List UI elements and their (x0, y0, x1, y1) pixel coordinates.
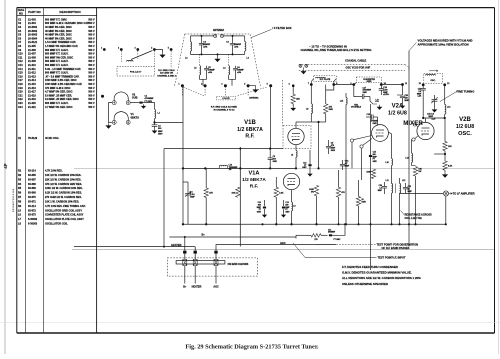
ground 8.2K (443, 172, 448, 177)
label C1 4700MMF FT GMV (145, 96, 155, 103)
svg-text:20-8064: 20-8064 (28, 37, 38, 40)
contact 12 osc (419, 83, 451, 86)
svg-text:500 V: 500 V (88, 64, 95, 67)
resistor 100K mixer grid (366, 169, 375, 179)
capacitor C6 (233, 66, 244, 76)
wires C7/47K to buses (183, 168, 207, 225)
svg-text:C15: C15 (18, 72, 23, 75)
wire plate node (296, 121, 326, 170)
svg-text:±5%: ±5% (237, 72, 241, 74)
label RF grid coils ch 2,3 (157, 70, 176, 78)
svg-text:L8: L8 (306, 109, 308, 111)
svg-text:63-870: 63-870 (28, 196, 36, 199)
ground antenna center (215, 54, 220, 61)
svg-text:G.M.V. DENOTES GUARANTEED MINI: G.M.V. DENOTES GUARANTEED MINIMUM VALUE. (342, 271, 412, 275)
capacitor C22 5.6MMF (417, 89, 426, 119)
wire osc contacts (423, 74, 445, 105)
tube V2A mixer (372, 125, 389, 142)
dashed coil box POS 2,3 (117, 67, 154, 77)
svg-text:500 V: 500 V (88, 34, 95, 37)
HEATER wire (74, 244, 195, 251)
svg-text:21-618: 21-618 (28, 94, 36, 97)
svg-text:63-214: 63-214 (28, 205, 36, 208)
svg-text:±.25: ±.25 (418, 96, 422, 98)
wire contact 11 to mixer (397, 85, 403, 96)
ground heater return (106, 123, 111, 128)
svg-text:500 V: 500 V (88, 75, 95, 78)
label V1 6BK7A (131, 112, 140, 119)
svg-text:21-612: 21-612 (28, 72, 36, 75)
coil L14 (445, 105, 452, 119)
svg-text:NO: NO (19, 11, 23, 15)
svg-text:21-611: 21-611 (28, 68, 36, 71)
svg-text:22K: 22K (296, 99, 300, 101)
svg-text:AS USED ON: AS USED ON (160, 72, 173, 75)
svg-text:63-214: 63-214 (28, 170, 36, 173)
svg-text:Fig. 29 Schematic Diagram S-2: Fig. 29 Schematic Diagram S-21735 Turret… (185, 344, 319, 351)
svg-text:21-8121: 21-8121 (28, 41, 38, 44)
fold crease lines (0, 168, 500, 322)
tube V1 heater pins (112, 112, 130, 125)
svg-text:21-605: 21-605 (28, 45, 36, 48)
svg-text:63-873: 63-873 (28, 214, 36, 217)
resistor 47K osc grid (434, 118, 452, 161)
note resistance across coil (401, 211, 433, 220)
capacitor C1 feed-thru (130, 102, 147, 104)
contact 11 (401, 83, 408, 86)
svg-text:63-869: 63-869 (28, 187, 36, 190)
svg-text:21-603: 21-603 (28, 18, 36, 21)
svg-text:L11: L11 (386, 180, 389, 182)
svg-text:FINE TUNING: FINE TUNING (457, 89, 475, 93)
svg-text:800 MMF F.T. G.M.V.: 800 MMF F.T. G.M.V. (45, 64, 69, 67)
svg-text:40 MMF 5% CER. DISC: 40 MMF 5% CER. DISC (45, 30, 72, 33)
svg-text:21-617: 21-617 (28, 91, 36, 94)
svg-text:63-868: 63-868 (28, 183, 36, 186)
svg-text:C16: C16 (18, 75, 23, 78)
svg-text:6-30363: 6-30363 (28, 223, 38, 226)
wire turret strip bus segments (334, 84, 403, 86)
wire heater riser x164 (163, 149, 165, 248)
svg-text:CONVERTER PLATE COIL ASSY: CONVERTER PLATE COIL ASSY (45, 214, 84, 217)
svg-text:C12: C12 (18, 60, 23, 63)
svg-text:500 V: 500 V (88, 68, 95, 71)
test point leaders (345, 224, 372, 270)
svg-text:IN CHANNEL 4 TO 13: IN CHANNEL 4 TO 13 (214, 109, 236, 112)
svg-text:800 MMF F.T. G.M.V.: 800 MMF F.T. G.M.V. (45, 49, 69, 52)
svg-text:C24: C24 (18, 106, 23, 109)
coil L12 secondary (396, 178, 406, 203)
coil L8 (306, 85, 312, 123)
svg-text:500 V: 500 V (88, 60, 95, 63)
svg-text:4.7 MMF 5% CER. DISC: 4.7 MMF 5% CER. DISC (45, 106, 73, 109)
resistor 47K grid (204, 188, 214, 198)
svg-text:1/2 6BK7A: 1/2 6BK7A (242, 177, 266, 183)
svg-text:22K 1/2 W. CARBON 10% RES.: 22K 1/2 W. CARBON 10% RES. (45, 178, 82, 181)
B+ wire (169, 223, 346, 250)
switch arm diagonal (131, 51, 153, 60)
feed-thru pin B+ (183, 251, 187, 289)
svg-text:V2B: V2B (459, 117, 471, 123)
svg-text:V1A: V1A (249, 171, 260, 177)
svg-text:±2.5%: ±2.5% (383, 94, 389, 96)
svg-text:800 MMF 5% CER. DISC: 800 MMF 5% CER. DISC (45, 56, 73, 59)
svg-text:1/2 6BK7A: 1/2 6BK7A (237, 127, 263, 133)
svg-text:HEATER: HEATER (171, 244, 181, 247)
svg-text:63-872: 63-872 (28, 209, 36, 212)
coil L2 (185, 36, 191, 60)
svg-text:OSC.: OSC. (458, 131, 472, 137)
svg-text:20-8062: 20-8062 (28, 30, 38, 33)
svg-text:4P: 4P (3, 163, 8, 168)
capacitor C17 1500MMF (354, 85, 372, 100)
svg-text:500 V: 500 V (88, 79, 95, 82)
osc injection cap C21 (390, 126, 392, 132)
svg-text:ALL RESISTORS ARE 1/2 W. CARBO: ALL RESISTORS ARE 1/2 W. CARBON RESISTOR… (342, 276, 421, 280)
svg-text:21-607: 21-607 (28, 53, 36, 56)
svg-text:47K 1/2 W. CARBON GMV RES.: 47K 1/2 W. CARBON GMV RES. (45, 183, 82, 186)
wire C1 to L1 (147, 103, 155, 110)
svg-text:21-615: 21-615 (28, 83, 36, 86)
wire grid bus V1B (182, 86, 184, 226)
svg-text:800 MMF F.T. G.M.V.: 800 MMF F.T. G.M.V. (45, 60, 69, 63)
svg-text:21-609: 21-609 (28, 60, 36, 63)
svg-text:1.5-6 MMF TRIMMER CAP.: 1.5-6 MMF TRIMMER CAP. (45, 41, 76, 44)
svg-text:10K 1 W. CARBON 10% RES.: 10K 1 W. CARBON 10% RES. (45, 200, 79, 203)
dashed links contacts to coil assy (182, 87, 266, 101)
svg-text:L13: L13 (405, 158, 408, 160)
svg-text:GRID: GRID (367, 81, 372, 83)
svg-text:±5%: ±5% (203, 46, 207, 48)
svg-text:10K: 10K (448, 146, 452, 148)
svg-text:R.F.: R.F. (245, 134, 255, 140)
fine tuning variable cap (431, 89, 474, 112)
svg-text:21-616: 21-616 (28, 87, 36, 90)
svg-text:C18: C18 (18, 83, 23, 86)
contacts 9 10 (350, 83, 386, 86)
svg-text:C23: C23 (18, 102, 23, 105)
wire contact4 to ground (154, 50, 162, 53)
tube V2A pin 2 (360, 139, 372, 181)
svg-text:R.F.: R.F. (250, 183, 259, 189)
svg-text:21-613: 21-613 (28, 75, 36, 78)
svg-text:C22: C22 (18, 98, 23, 101)
resistor 8.2K (443, 161, 453, 172)
svg-text:VOLTAGES MEASURED WITH VT.V.M: VOLTAGES MEASURED WITH VT.V.M AND (418, 39, 473, 43)
antenna middle bus (190, 53, 244, 55)
svg-text:20-8061: 20-8061 (28, 26, 38, 29)
svg-text:500 V: 500 V (88, 53, 95, 56)
coil L6 (223, 54, 229, 75)
coax connectors (299, 64, 308, 74)
capacitor C23 3.9MMF (422, 114, 446, 121)
svg-text:800 MMF F.T. GMV.: 800 MMF F.T. GMV. (45, 18, 67, 21)
svg-text:800 MMF G.M.V. CERAMIC DISC CA: 800 MMF G.M.V. CERAMIC DISC CAP. (45, 22, 89, 25)
svg-text:4700MMF: 4700MMF (145, 97, 155, 100)
svg-text:POS. 2,3 8 7: POS. 2,3 8 7 (130, 71, 142, 73)
svg-text:1.5 MMF 5% CERAMIC CAP.: 1.5 MMF 5% CERAMIC CAP. (45, 45, 78, 48)
svg-text:40 MMF 5% CER. DISC: 40 MMF 5% CER. DISC (45, 37, 72, 40)
svg-text:C13: C13 (18, 64, 23, 67)
antenna top bus wire (190, 35, 244, 37)
svg-text:FT GMV: FT GMV (334, 239, 342, 241)
svg-text:500 V: 500 V (88, 106, 95, 109)
svg-text:1500 MMF 2.5% CER. DISC: 1500 MMF 2.5% CER. DISC (45, 79, 77, 82)
svg-text:21-619: 21-619 (28, 98, 36, 101)
capacitor C11 600MMF FT (328, 229, 341, 241)
svg-text:800 MMF F.T. G.M.V.: 800 MMF F.T. G.M.V. (45, 102, 69, 105)
wire C2 node to grid line (155, 121, 184, 123)
label V1A 1/2 6BK7A RF (242, 171, 266, 190)
svg-text:GMV: GMV (158, 133, 163, 135)
svg-text:L15: L15 (376, 99, 379, 101)
svg-text:GMV: GMV (363, 92, 368, 94)
svg-text:APPROXIMATE 10%± VIEW ISOLATI: APPROXIMATE 10%± VIEW ISOLATION (418, 42, 469, 46)
svg-text:C17: C17 (18, 79, 23, 82)
capacitor C18 1500MMF (379, 85, 389, 97)
svg-text:TO I.F AMPLIFIER: TO I.F AMPLIFIER (453, 192, 475, 196)
svg-text:CHANNEL 2 AND 3: CHANNEL 2 AND 3 (157, 74, 176, 77)
coil L16 (340, 93, 347, 108)
table rows resistors and coils (18, 170, 86, 226)
capacitor C2 (152, 125, 158, 129)
test point labels (293, 243, 418, 260)
svg-text:GMV: GMV (273, 161, 278, 163)
capacitor C3 40MMF (199, 36, 211, 55)
coil L11 primary (386, 170, 393, 203)
ground contact 4 (248, 86, 258, 93)
svg-text:8.2K 1/2 W. CARBON 10% RES.: 8.2K 1/2 W. CARBON 10% RES. (45, 192, 82, 195)
coil L13 (405, 140, 412, 166)
svg-text:21-608: 21-608 (28, 56, 36, 59)
chassis dashed box (167, 258, 257, 276)
svg-text:COAXIAL CABLE: COAXIAL CABLE (345, 59, 367, 63)
svg-text:63-865: 63-865 (28, 174, 36, 177)
svg-text:AGC: AGC (280, 242, 286, 245)
tube V2B osc (417, 118, 434, 140)
svg-text:8.2K: 8.2K (448, 165, 453, 167)
feed-thru C12 800MMF (282, 200, 291, 217)
svg-text:40 MMF 5% CER. DISC: 40 MMF 5% CER. DISC (45, 34, 72, 37)
svg-text:COIL L12 7.5Ω: COIL L12 7.5Ω (405, 217, 422, 220)
feed-thru C10 800MMF (257, 200, 267, 217)
svg-text:5.6 MMF .25 MMF CER.: 5.6 MMF .25 MMF CER. (45, 94, 72, 97)
svg-text:C19: C19 (18, 87, 23, 90)
svg-text:10K: 10K (232, 193, 236, 195)
wire V2 pin4 and V1 pin4 to ground (109, 103, 113, 123)
note voltages measured (409, 39, 473, 51)
svg-text:2.2K: 2.2K (279, 193, 284, 195)
svg-text:GMV: GMV (373, 123, 378, 125)
label V2 SUB (132, 92, 138, 99)
resistor 10 ohm (356, 180, 366, 225)
svg-text:500 V: 500 V (88, 98, 95, 101)
svg-text:±5%: ±5% (208, 72, 212, 74)
svg-text:500 V: 500 V (88, 87, 95, 90)
svg-text:500 V: 500 V (88, 49, 95, 52)
notes FT/GMV (342, 265, 421, 286)
wire V1B cathode down (164, 145, 297, 247)
feed-thru pin AGC (213, 251, 219, 289)
svg-text:GMV: GMV (329, 109, 334, 111)
svg-text:1%: 1% (229, 169, 232, 171)
svg-text:1/2 6U8: 1/2 6U8 (456, 124, 474, 130)
coil box RF PLATE (314, 76, 337, 82)
svg-text:3.9 MMF .25 MMF CER. DISC: 3.9 MMF .25 MMF CER. DISC (45, 98, 79, 101)
svg-text:ANTENNA: ANTENNA (213, 29, 225, 32)
resistor 8.2K right (453, 131, 455, 224)
capacitor C25 22MMF (403, 183, 413, 194)
svg-text:1W: 1W (418, 171, 421, 173)
tube V1B (283, 126, 311, 149)
coil L10 mixer plate (385, 132, 392, 170)
svg-text:6-30362: 6-30362 (28, 218, 38, 221)
capacitor C13 FT (302, 150, 312, 176)
label C2 500 MMF GMV (158, 126, 163, 136)
label V1B 1/2 6BK7A RF (237, 120, 263, 140)
svg-text:500 V: 500 V (88, 45, 95, 48)
resistor 100K plate (309, 168, 319, 225)
svg-text:21-620: 21-620 (28, 102, 36, 105)
AGC wire (216, 242, 336, 251)
svg-text:500 V: 500 V (88, 91, 95, 94)
capacitor C16 4.7MMF (340, 160, 350, 170)
terminal strip contacts 1-5 (101, 47, 173, 51)
contacts 7 8 (308, 79, 338, 86)
ground C2 (152, 129, 156, 134)
svg-text:C20: C20 (18, 91, 23, 94)
svg-text:4.7K 10% RES.: 4.7K 10% RES. (45, 170, 63, 173)
svg-text:78-8129: 78-8129 (28, 137, 38, 140)
svg-text:500 V: 500 V (88, 37, 95, 40)
svg-text:.47 - 5.6 MMF TRIMMER CAP.: .47 - 5.6 MMF TRIMMER CAP. (45, 75, 80, 78)
svg-text:R.F. GRID COILS AS USED: R.F. GRID COILS AS USED (211, 106, 238, 109)
svg-text:47K: 47K (209, 192, 213, 195)
capacitor C9 600 GMV (268, 156, 278, 164)
svg-text:S 2 3 6 9 8 7 2 5 1 3 1 2 4: S 2 3 6 9 8 7 2 5 1 3 1 2 4 (13, 188, 15, 212)
mixer wires (345, 104, 380, 270)
coil L-sw (126, 60, 133, 61)
svg-text:B+: B+ (202, 233, 206, 236)
antenna dashed enclosure (175, 34, 261, 86)
ground C1 (142, 104, 146, 108)
svg-text:21-604: 21-604 (28, 22, 36, 25)
svg-text:21-614: 21-614 (28, 79, 36, 82)
wire contact 5 to V1B cathode line (270, 84, 290, 149)
svg-text:DESCRIPTION: DESCRIPTION (59, 10, 81, 14)
svg-text:100K 1/2 W. CARBON 10% RES.: 100K 1/2 W. CARBON 10% RES. (45, 187, 83, 190)
svg-text:C19: C19 (367, 114, 370, 116)
svg-text:L16: L16 (340, 101, 343, 103)
svg-text:500 V: 500 V (88, 26, 95, 29)
svg-text:ANTENNA: ANTENNA (249, 97, 259, 100)
svg-text:63-867: 63-867 (28, 178, 36, 181)
svg-text:L12: L12 (402, 180, 405, 182)
tube V2 heater pins (112, 92, 130, 105)
svg-text:OSC YCO3 FOR UHF: OSC YCO3 FOR UHF (346, 67, 371, 70)
svg-text:800 MMF F.T. G.M.V.: 800 MMF F.T. G.M.V. (45, 53, 69, 56)
svg-text:5%: 5% (311, 192, 314, 194)
capacitor C19 470MMF (366, 114, 379, 125)
svg-text:F.T. DENOTES FEED THRU CONDENS: F.T. DENOTES FEED THRU CONDENSER (342, 265, 399, 269)
tab on shield (351, 97, 382, 110)
osc coil dashed box (424, 70, 443, 83)
svg-text:V1B: V1B (244, 120, 256, 126)
coil box CONVERTER GRID (356, 77, 381, 83)
tube V2A pin 6 (350, 136, 371, 169)
resistor 2.2K cathode (274, 177, 284, 226)
wire RF cathode row (182, 167, 240, 169)
label IF FILTER BOX (251, 26, 292, 38)
terminal strip bar (176, 261, 225, 264)
table header (18, 8, 82, 15)
svg-text:CHANNEL NO.,FINE TUNER,AND BUL: CHANNEL NO.,FINE TUNER,AND BULL'S EYE SE… (301, 48, 372, 52)
resistor 270 ohm B+ (296, 234, 328, 241)
svg-text:OSCILLATOR PLATE COIL ASSY: OSCILLATOR PLATE COIL ASSY (45, 218, 84, 221)
svg-text:500 V: 500 V (88, 18, 95, 21)
svg-text:63-866: 63-866 (28, 192, 36, 195)
svg-text:4.7 MMF 5% CER. DISC: 4.7 MMF 5% CER. DISC (45, 91, 73, 94)
svg-text:ON SHIELD: ON SHIELD (351, 107, 362, 109)
capacitor C20 120MMF (400, 95, 410, 108)
svg-text:OSCILLATOR GRID COIL ASSY: OSCILLATOR GRID COIL ASSY (45, 209, 82, 212)
capacitor C8 470MMF (326, 140, 336, 154)
svg-text:40 MMF 5% CER. DISC: 40 MMF 5% CER. DISC (45, 26, 72, 29)
svg-text:500 V: 500 V (88, 72, 95, 75)
svg-text:20-8063: 20-8063 (28, 34, 38, 37)
parts list table grid (17, 8, 97, 333)
svg-text:40 MC OSC.: 40 MC OSC. (45, 137, 59, 140)
table rows capacitors (18, 18, 95, 108)
coil L10 choke (290, 190, 295, 226)
svg-text:L7A L7B: L7A L7B (222, 97, 230, 100)
svg-text:C10: C10 (18, 53, 23, 56)
svg-text:GMV: GMV (361, 202, 366, 204)
label V2B 1/2 6U8 OSC (456, 117, 474, 137)
svg-text:HEATER: HEATER (192, 286, 202, 289)
svg-text:AGC: AGC (213, 286, 219, 289)
svg-text:5-60 - 1.5 MMF TRIMMER CAP.: 5-60 - 1.5 MMF TRIMMER CAP. (45, 68, 81, 71)
svg-text:ON MAIN CHASSIS: ON MAIN CHASSIS (228, 263, 249, 266)
svg-text:500 V: 500 V (88, 83, 95, 86)
svg-text:– 13 TO – TV SCREENING IN: – 13 TO – TV SCREENING IN (309, 44, 347, 48)
trimmer L7 (219, 163, 238, 171)
svg-text:500 V: 500 V (88, 94, 95, 97)
ground at contact 4 (160, 53, 165, 58)
tube V2B pin circles (412, 123, 419, 141)
capacitor C15 feed-thru (369, 152, 378, 164)
svg-text:I F FILTER BOX: I F FILTER BOX (273, 26, 292, 30)
capacitor C5 (204, 66, 215, 76)
label RF grid coils ch4-13 (211, 106, 238, 112)
label V2A 1/2 6U8 MIXER (388, 104, 423, 128)
svg-text:OF R-F BAND PASSES: OF R-F BAND PASSES (382, 246, 410, 250)
resistor 47K GMV (324, 85, 334, 123)
resistor 22K screen (291, 84, 300, 110)
resistor 10K 1W (412, 166, 424, 225)
svg-text:C21: C21 (18, 94, 23, 97)
svg-text:SUB: SUB (132, 96, 138, 100)
to IF amplifier terminal (400, 178, 475, 196)
svg-text:21-606: 21-606 (28, 49, 36, 52)
node heater feed terminal (101, 95, 104, 98)
svg-text:500 V: 500 V (88, 102, 95, 105)
svg-text:OSC.: OSC. (430, 80, 436, 82)
svg-text:500 V: 500 V (88, 22, 95, 25)
variable capacitor C7 (185, 191, 195, 200)
svg-text:1/2 6U8: 1/2 6U8 (388, 111, 407, 117)
svg-text:470 MMF G.M.V. DISC: 470 MMF G.M.V. DISC (45, 87, 71, 90)
